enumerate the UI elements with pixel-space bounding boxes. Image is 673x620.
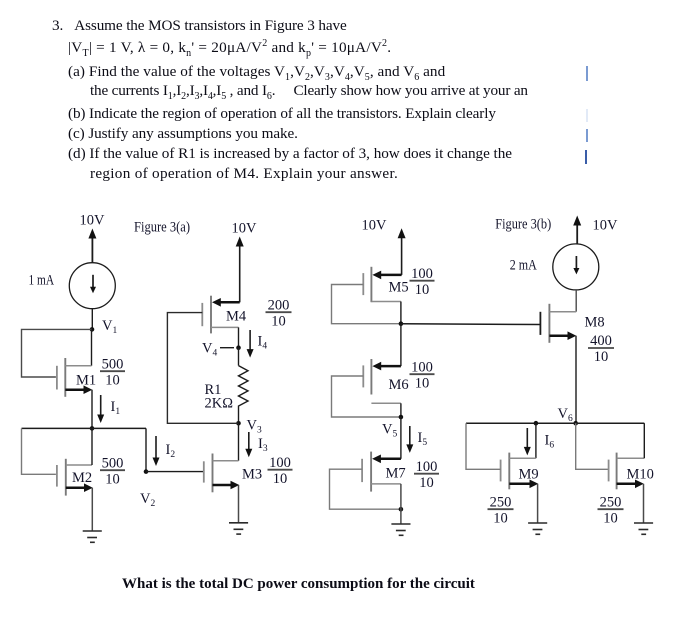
- label M6 W/L 100/10: [410, 360, 435, 392]
- label M10 W/L 250/10: [598, 495, 624, 527]
- ground M3: [229, 523, 248, 534]
- wire to M2 gate: [22, 428, 56, 474]
- svg-text:100: 100: [416, 459, 438, 475]
- svg-text:200: 200: [268, 298, 290, 314]
- svg-text:500: 500: [102, 456, 124, 472]
- svg-text:10V: 10V: [362, 218, 388, 234]
- node M7 source / gate: [399, 507, 404, 512]
- problem statement line (b): [68, 105, 496, 123]
- wire V5 to M7 drain: [400, 417, 402, 459]
- svg-text:I6: I6: [545, 433, 555, 451]
- svg-text:10: 10: [603, 511, 618, 527]
- transistor M5: [363, 267, 401, 302]
- wire M4 drain to V4: [238, 327, 240, 347]
- svg-text:M10: M10: [627, 467, 654, 483]
- svg-text:10: 10: [273, 471, 288, 487]
- label M4 W/L 200/10: [266, 298, 292, 330]
- svg-text:V5: V5: [382, 422, 397, 440]
- label M9 W/L 250/10: [488, 495, 514, 527]
- svg-text:10: 10: [419, 475, 434, 491]
- svg-text:Figure 3(b): Figure 3(b): [495, 217, 551, 233]
- wire 10V arrow (left supply): [88, 229, 96, 263]
- wire V3 feedback to M4 gate: [167, 313, 238, 424]
- label M3 W/L 100/10: [268, 455, 293, 487]
- wire gate bus to M8: [401, 323, 541, 326]
- svg-text:M4: M4: [226, 309, 247, 325]
- svg-text:100: 100: [411, 360, 433, 376]
- svg-text:2 mA: 2 mA: [510, 258, 537, 274]
- wire M6 gate loop: [332, 376, 399, 417]
- resistor R1: [239, 348, 249, 424]
- svg-text:I1: I1: [111, 399, 121, 417]
- svg-text:10V: 10V: [80, 213, 106, 229]
- wire M5 gate loop: [332, 285, 399, 324]
- current arrow I1: [97, 395, 120, 423]
- transistor M6: [363, 359, 401, 403]
- label M8 W/L 400/10: [588, 333, 614, 365]
- problem statement line 1: [52, 17, 347, 35]
- wire M5 drain to node: [400, 302, 402, 324]
- wire down to V2: [145, 428, 147, 471]
- svg-text:10: 10: [415, 376, 430, 392]
- current arrow I5: [406, 426, 427, 453]
- cursor mark faint: [586, 109, 588, 122]
- svg-text:I3: I3: [258, 436, 268, 454]
- current arrow I2: [153, 436, 176, 466]
- svg-text:V1: V1: [102, 318, 117, 336]
- svg-text:M7: M7: [386, 466, 406, 482]
- svg-text:Figure 3(a): Figure 3(a): [134, 220, 190, 236]
- svg-text:V4: V4: [202, 341, 217, 359]
- problem statement line (d) cont: [90, 165, 398, 183]
- node M5 drain / gate bus: [399, 321, 404, 326]
- label M5 W/L 100/10: [410, 266, 435, 298]
- transistor M10: [609, 453, 645, 490]
- wire 10V arrow (M5 branch): [398, 228, 406, 275]
- node V6: [573, 421, 578, 426]
- wire M10 gate loop: [576, 423, 609, 469]
- wire node row to I2 branch: [22, 427, 147, 429]
- wire M9 drain down: [535, 423, 537, 458]
- wire M7 source to ground: [400, 484, 402, 524]
- label M2 W/L 500/10: [100, 456, 125, 488]
- svg-text:10: 10: [271, 314, 286, 330]
- wire M2 drain up: [91, 428, 93, 465]
- cursor mark 2: [586, 129, 588, 142]
- svg-text:I2: I2: [166, 442, 176, 460]
- wire 10V arrow (right supply): [573, 216, 581, 245]
- svg-text:10V: 10V: [232, 221, 258, 237]
- bottom question: [122, 576, 475, 593]
- wire current source to M8: [575, 290, 577, 312]
- svg-text:M9: M9: [519, 467, 539, 483]
- wire current source to V1: [91, 309, 93, 330]
- svg-text:M3: M3: [242, 467, 262, 483]
- svg-text:250: 250: [600, 495, 622, 511]
- problem statement line (a) cont: [90, 82, 528, 100]
- svg-text:10V: 10V: [593, 218, 619, 234]
- problem statement line (c): [68, 125, 298, 143]
- wire M9 gate loop: [466, 423, 501, 469]
- problem statement line (a): [68, 63, 445, 81]
- label M1 W/L 500/10: [100, 357, 125, 389]
- node V4: [202, 341, 241, 359]
- ground M2: [83, 531, 102, 542]
- transistor M1: [57, 358, 92, 397]
- wire 10V arrow (middle supply): [236, 237, 244, 303]
- svg-text:1 mA: 1 mA: [29, 273, 55, 289]
- svg-text:100: 100: [269, 455, 291, 471]
- svg-text:V6: V6: [558, 406, 573, 424]
- problem statement line (d): [68, 145, 512, 163]
- wire V3 to M3 drain: [238, 423, 240, 461]
- node V3: [236, 418, 262, 436]
- node V1: [90, 318, 118, 336]
- ground M7: [391, 524, 410, 535]
- wire M6 drain to V5: [400, 403, 402, 417]
- node V5: [382, 415, 403, 440]
- svg-text:400: 400: [590, 333, 612, 349]
- wire node to M6 source: [400, 324, 402, 366]
- wire M10 drain loop: [643, 423, 645, 458]
- svg-text:M1: M1: [76, 373, 96, 389]
- node V2: [140, 469, 155, 509]
- svg-text:M8: M8: [585, 315, 605, 331]
- label R1 value: [205, 382, 234, 412]
- cursor mark 3: [585, 150, 587, 164]
- svg-text:2KΩ: 2KΩ: [205, 396, 234, 412]
- svg-text:250: 250: [490, 495, 512, 511]
- current arrow I3: [245, 432, 268, 457]
- svg-text:M6: M6: [389, 377, 409, 393]
- transistor M2: [57, 459, 93, 496]
- wire V2 to M3 gate: [146, 471, 204, 473]
- svg-text:500: 500: [102, 357, 124, 373]
- transistor M4: [202, 296, 239, 334]
- problem statement line 2: [68, 39, 391, 57]
- svg-text:10: 10: [594, 349, 609, 365]
- svg-text:M5: M5: [389, 280, 409, 296]
- ground M9: [528, 523, 547, 534]
- svg-text:100: 100: [411, 266, 433, 282]
- wire M8 source to V6: [575, 336, 577, 424]
- current arrow I4: [247, 330, 268, 358]
- node M1 source / M2 drain: [90, 426, 95, 431]
- wire V1 to M1 drain: [91, 329, 93, 365]
- svg-text:I4: I4: [258, 334, 268, 352]
- wire M9 source to ground: [537, 484, 539, 523]
- wire M2 source to ground: [91, 488, 93, 531]
- svg-text:10: 10: [105, 373, 120, 389]
- current arrow I6: [524, 428, 555, 455]
- transistor M9: [501, 453, 539, 490]
- svg-text:10: 10: [415, 282, 430, 298]
- wire V1 to M1 gate: [22, 329, 93, 377]
- svg-text:V2: V2: [140, 491, 155, 509]
- transistor M8: [540, 304, 576, 343]
- svg-text:M2: M2: [72, 470, 92, 486]
- svg-text:10: 10: [105, 472, 120, 488]
- svg-text:10: 10: [493, 511, 508, 527]
- wire M10 source to ground: [643, 484, 645, 523]
- transistor M7: [362, 452, 401, 492]
- wire M1 source to node: [91, 390, 93, 429]
- label M7 W/L 100/10: [414, 459, 439, 491]
- node M9 drain: [534, 421, 539, 426]
- cursor mark 1: [586, 66, 588, 81]
- wire V6 bus: [466, 422, 644, 424]
- current source 1 mA: [69, 263, 115, 309]
- svg-text:I5: I5: [418, 430, 428, 448]
- wire M7 gate loop: [330, 469, 399, 509]
- ground M10: [634, 523, 653, 534]
- wire M3 source to ground: [238, 485, 240, 523]
- current source 2 mA: [553, 244, 599, 290]
- transistor M3: [204, 454, 240, 493]
